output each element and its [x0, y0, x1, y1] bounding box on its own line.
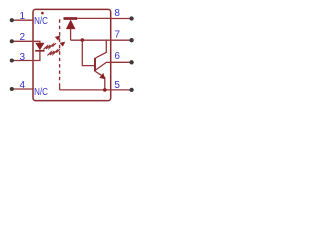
- pin7 internal line: [71, 39, 111, 41]
- emitter junction dot: [103, 88, 107, 92]
- svg-text:N/C: N/C: [34, 87, 48, 98]
- LED cathode bar: [35, 50, 44, 52]
- svg-text:5: 5: [114, 80, 120, 91]
- photodiode cathode bar: [64, 17, 78, 20]
- photodiode D2: [66, 20, 76, 30]
- body U1 outline: [33, 9, 111, 100]
- pin 6: [111, 51, 134, 64]
- pin 7: [111, 30, 134, 43]
- base junction dot: [81, 38, 85, 42]
- LED cathode wire: [34, 51, 40, 61]
- shield to rail: [59, 84, 61, 90]
- svg-text:3: 3: [19, 52, 25, 63]
- shield dashed line: [59, 19, 61, 84]
- transistor Q1 base bar: [94, 58, 96, 72]
- svg-text:8: 8: [114, 8, 120, 19]
- pin 5: [111, 80, 134, 92]
- LED anode wire: [34, 41, 40, 43]
- emitter wire: [96, 72, 105, 90]
- background: [0, 0, 143, 110]
- svg-text:1: 1: [19, 11, 25, 22]
- base tap to pin 6: [96, 62, 111, 70]
- emitter arrowhead: [99, 73, 105, 79]
- svg-text:4: 4: [19, 80, 25, 91]
- pin 3: [10, 52, 34, 63]
- svg-text:7: 7: [114, 30, 120, 41]
- svg-text:2: 2: [19, 32, 25, 43]
- marker dot: [41, 12, 44, 15]
- collector wire: [96, 40, 107, 58]
- pin 4: [10, 80, 34, 91]
- pin 2: [10, 32, 34, 43]
- photodiode anode wire: [70, 29, 72, 41]
- svg-text:6: 6: [114, 51, 120, 62]
- emitter/ground rail: [60, 89, 111, 91]
- base wire: [82, 40, 94, 66]
- pin 1: [10, 11, 34, 22]
- svg-text:N/C: N/C: [34, 16, 48, 27]
- top rail to pin 8: [64, 17, 111, 19]
- light arrow 2: [47, 42, 65, 56]
- light arrow 1: [43, 36, 60, 50]
- pin 8: [111, 8, 134, 21]
- LED D1: [35, 43, 44, 51]
